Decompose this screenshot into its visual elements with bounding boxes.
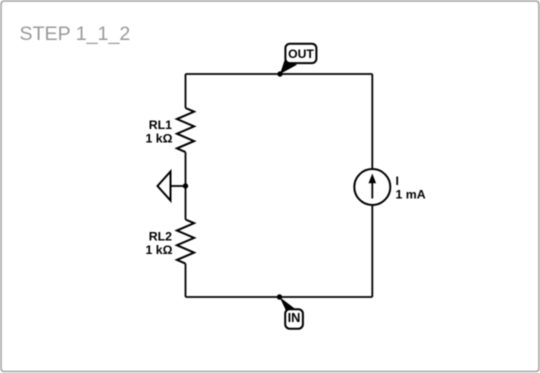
svg-text:IN: IN [288,310,301,325]
svg-text:I: I [396,174,399,188]
svg-text:1 kΩ: 1 kΩ [146,132,173,146]
svg-text:1 kΩ: 1 kΩ [146,243,173,257]
svg-text:OUT: OUT [288,47,314,61]
svg-text:RL1: RL1 [149,118,172,132]
svg-text:RL2: RL2 [149,230,172,244]
svg-text:STEP 1_1_2: STEP 1_1_2 [20,23,131,45]
svg-text:1 mA: 1 mA [396,188,426,202]
